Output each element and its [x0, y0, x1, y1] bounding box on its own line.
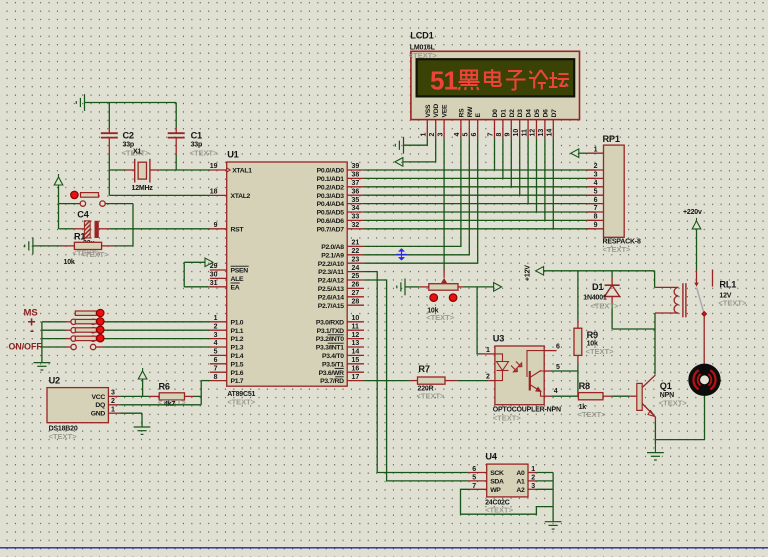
wire LCD D5 to P0.5: [536, 138, 538, 212]
svg-text:14: 14: [352, 349, 360, 356]
diode D1 1N4001: [583, 271, 619, 329]
ground (crystal top rail): [76, 94, 84, 111]
wire relay pole to motor: [703, 317, 705, 364]
svg-text:6: 6: [214, 357, 218, 364]
wire LCD D7 to P0.7: [552, 138, 554, 228]
svg-text:6: 6: [556, 344, 560, 351]
svg-text:<TEXT>: <TEXT>: [493, 414, 522, 423]
wire LCD D2 to P0.2: [510, 138, 512, 186]
svg-text:X1: X1: [133, 149, 141, 156]
svg-text:RS: RS: [458, 108, 465, 118]
svg-text:P1.2: P1.2: [231, 336, 244, 343]
svg-text:<TEXT>: <TEXT>: [586, 347, 615, 356]
svg-text:24: 24: [352, 265, 360, 272]
svg-text:P3.0/RXD: P3.0/RXD: [316, 319, 344, 326]
capacitor C2 33p: [101, 131, 150, 158]
svg-text:U1: U1: [227, 150, 238, 160]
capacitor C4 22u: [59, 210, 111, 248]
svg-text:OPTOCOUPLER-NPN: OPTOCOUPLER-NPN: [493, 407, 561, 414]
wire P0.1 bus row: [364, 177, 595, 179]
svg-text:VEE: VEE: [442, 104, 449, 117]
svg-text:RP1: RP1: [603, 134, 620, 144]
svg-text:<TEXT>: <TEXT>: [190, 149, 219, 158]
svg-text:XTAL2: XTAL2: [231, 193, 251, 200]
svg-text:<TEXT>: <TEXT>: [718, 299, 747, 308]
svg-text:D6: D6: [542, 109, 549, 118]
svg-text:7: 7: [214, 365, 218, 372]
svg-text:39: 39: [352, 163, 360, 170]
svg-text:12: 12: [530, 129, 537, 137]
optocoupler U3: [486, 334, 561, 423]
svg-text:P1.6: P1.6: [231, 370, 244, 377]
svg-text:C1: C1: [191, 131, 202, 141]
svg-text:P3.3/INT1: P3.3/INT1: [316, 345, 344, 352]
wire RS to P2.0: [364, 138, 461, 246]
svg-text:P0.0/AD0: P0.0/AD0: [317, 168, 345, 175]
svg-text:<TEXT>: <TEXT>: [659, 399, 688, 408]
svg-text:P2.6/A14: P2.6/A14: [318, 294, 344, 301]
wire LCD D6 to P0.6: [544, 138, 546, 220]
svg-text:33p: 33p: [123, 142, 134, 149]
svg-text:P2.2/A10: P2.2/A10: [318, 261, 344, 268]
svg-text:3: 3: [437, 133, 444, 137]
svg-text:C4: C4: [77, 210, 89, 220]
svg-text:R8: R8: [579, 381, 590, 391]
svg-text:1: 1: [486, 347, 490, 354]
svg-text:8: 8: [496, 133, 503, 137]
wire P0.7 bus row: [364, 228, 595, 230]
svg-text:29: 29: [210, 263, 218, 270]
svg-text:P0.6/AD6: P0.6/AD6: [317, 218, 345, 225]
wire U3 pin4 to R8: [544, 395, 578, 397]
svg-text:P2.7/A15: P2.7/A15: [318, 303, 344, 310]
svg-text:PSEN: PSEN: [231, 268, 249, 275]
wire pot right to power: [463, 286, 494, 288]
svg-text:D1: D1: [592, 282, 603, 292]
wire E to P2.2: [364, 138, 478, 263]
svg-text:GND: GND: [91, 411, 106, 418]
svg-text:1: 1: [111, 406, 115, 413]
power arrow (RP1 pin1): [571, 149, 579, 158]
svg-text:<TEXT>: <TEXT>: [485, 506, 514, 515]
wire P0.0 bus row: [364, 169, 595, 171]
sheet border bottom: [0, 547, 768, 549]
svg-text:DQ: DQ: [95, 402, 105, 409]
wire LCD VEE to pot wiper: [443, 138, 445, 277]
wire +12V rail: [544, 271, 655, 288]
svg-text:2: 2: [214, 323, 218, 330]
svg-text:R9: R9: [587, 330, 598, 340]
svg-text:11: 11: [521, 129, 528, 137]
svg-text:3: 3: [111, 390, 115, 397]
wire LCD D1 to P0.1: [502, 138, 504, 178]
svg-text:5: 5: [214, 349, 218, 356]
push button reset: [71, 191, 133, 246]
svg-text:17: 17: [352, 374, 360, 381]
lcd text zi: [506, 71, 526, 90]
eeprom U4 24C02C: [470, 452, 537, 515]
svg-text:P2.3/A11: P2.3/A11: [318, 269, 344, 276]
svg-text:P2.0/A8: P2.0/A8: [321, 244, 344, 251]
svg-text:A1: A1: [516, 479, 525, 486]
svg-text:10: 10: [513, 129, 520, 137]
svg-text:<TEXT>: <TEXT>: [227, 398, 256, 407]
svg-text:10: 10: [352, 315, 360, 322]
ground (U4): [545, 522, 562, 529]
wire EA loop: [184, 262, 210, 287]
wire pot net down to U3 pin1: [477, 287, 495, 354]
svg-text:P3.1/TXD: P3.1/TXD: [317, 328, 344, 335]
svg-text:P1.1: P1.1: [231, 328, 244, 335]
svg-text:R7: R7: [418, 364, 429, 374]
svg-text:+220v: +220v: [683, 209, 702, 216]
lcd screen: [417, 59, 575, 96]
wire U3 pin5 to R9: [544, 370, 578, 372]
svg-text:1: 1: [531, 466, 535, 473]
svg-text:<TEXT>: <TEXT>: [603, 245, 632, 254]
wire P0.5 bus row: [364, 211, 595, 213]
wire LCD VSS to ground: [404, 138, 428, 145]
ground (LCD VSS): [395, 137, 403, 154]
svg-text:SCK: SCK: [490, 470, 504, 477]
svg-text:P2.1/A9: P2.1/A9: [321, 252, 344, 259]
ground (pot): [397, 279, 405, 296]
capacitor C1 33p: [168, 131, 218, 158]
svg-text:27: 27: [352, 290, 360, 297]
lcd text lun: [529, 70, 548, 90]
svg-text:9: 9: [594, 222, 598, 229]
crystal X1 12MHz: [109, 149, 210, 193]
svg-text:P0.1/AD1: P0.1/AD1: [317, 176, 345, 183]
svg-text:9: 9: [214, 222, 218, 229]
svg-text:21: 21: [352, 240, 360, 247]
svg-text:R6: R6: [159, 382, 170, 392]
svg-text:D4: D4: [526, 109, 533, 118]
svg-text:12: 12: [352, 332, 360, 339]
wire LCD D4 to P0.4: [527, 138, 529, 203]
svg-text:33: 33: [352, 214, 360, 221]
svg-text:P0.3/AD3: P0.3/AD3: [317, 193, 345, 200]
svg-text:8: 8: [594, 214, 598, 221]
relay RL1 12V: [655, 270, 747, 318]
svg-text:26: 26: [352, 282, 360, 289]
push button row 3 (P1.2): [42, 326, 210, 341]
power arrow (+12V): [536, 267, 544, 276]
svg-text:6: 6: [471, 133, 478, 137]
svg-text:XTAL1: XTAL1: [232, 168, 252, 175]
svg-text:19: 19: [210, 163, 218, 170]
svg-text:ON/OFF: ON/OFF: [9, 342, 43, 352]
svg-text:1: 1: [214, 315, 218, 322]
svg-text:10k: 10k: [64, 259, 75, 266]
svg-text:C2: C2: [123, 131, 134, 141]
svg-text:LCD1: LCD1: [410, 31, 433, 41]
svg-text:<TEXT>: <TEXT>: [590, 302, 619, 311]
svg-text:EA: EA: [231, 284, 240, 291]
svg-text:12MHz: 12MHz: [132, 185, 154, 192]
svg-text:25: 25: [352, 273, 360, 280]
resistor R8 1k: [578, 381, 631, 419]
svg-text:U2: U2: [49, 376, 60, 386]
power arrow (U2 VCC): [138, 368, 147, 379]
transistor Q1 NPN: [630, 375, 687, 422]
svg-text:1: 1: [421, 133, 428, 137]
wire top rail to C2/C1: [85, 103, 177, 134]
svg-text:SDA: SDA: [490, 479, 504, 486]
wire +220V to relay contact: [694, 229, 698, 287]
power arrow (+220V): [692, 218, 701, 229]
svg-text:P3.6/WR: P3.6/WR: [319, 370, 344, 377]
svg-text:D0: D0: [492, 109, 499, 118]
origin marker (blue cross): [396, 249, 407, 260]
svg-text:14: 14: [547, 129, 554, 137]
svg-text:D7: D7: [551, 109, 558, 118]
svg-text:2: 2: [531, 474, 535, 481]
lcd text hei: [459, 71, 480, 91]
power arrow (pot): [494, 283, 502, 292]
svg-text:2: 2: [594, 163, 598, 170]
power arrow (reset): [54, 174, 63, 185]
svg-text:Q1: Q1: [660, 381, 672, 391]
svg-text:1N4001: 1N4001: [583, 294, 607, 301]
resistor R9 10k: [574, 271, 614, 371]
svg-text:3: 3: [531, 483, 535, 490]
wire LCD D3 to P0.3: [519, 138, 521, 195]
svg-text:51: 51: [430, 66, 457, 96]
wire D1 bottom / coil bottom / collector node: [612, 313, 655, 374]
lcd text 51: [430, 66, 457, 96]
svg-text:34: 34: [352, 205, 360, 212]
svg-text:6: 6: [594, 197, 598, 204]
svg-text:4: 4: [214, 340, 218, 347]
svg-text:U3: U3: [493, 334, 504, 344]
svg-text:4: 4: [554, 388, 558, 395]
svg-text:A2: A2: [516, 487, 525, 494]
wire U2 GND: [120, 413, 142, 427]
wire U4 WP loop: [461, 489, 554, 514]
svg-text:<TEXT>: <TEXT>: [578, 410, 607, 419]
svg-text:RW: RW: [467, 106, 474, 117]
svg-text:9: 9: [505, 133, 512, 137]
wire P0.2 bus row: [364, 186, 595, 188]
svg-text:P0.5/AD5: P0.5/AD5: [317, 210, 345, 217]
svg-text:3: 3: [214, 332, 218, 339]
svg-text:11: 11: [352, 323, 360, 330]
svg-text:P1.3: P1.3: [231, 345, 244, 352]
wire P2.4 to U4 SDA: [364, 280, 487, 481]
lcd text dian: [485, 69, 501, 86]
svg-text:D3: D3: [517, 109, 524, 118]
svg-text:P1.5: P1.5: [231, 361, 244, 368]
push button row 4 (P1.3): [42, 335, 210, 350]
svg-text:13: 13: [538, 129, 545, 137]
svg-text:P3.7/RD: P3.7/RD: [320, 378, 344, 385]
svg-text:37: 37: [352, 180, 360, 187]
wire power to reset button / C4: [59, 185, 80, 229]
lcd pins: [421, 104, 558, 139]
wire emitter to ground rail: [655, 422, 705, 445]
wire P0.4 bus row: [364, 203, 595, 205]
svg-text:5: 5: [472, 474, 476, 481]
svg-text:P2.4/A12: P2.4/A12: [318, 278, 344, 285]
svg-text:P3.4/T0: P3.4/T0: [322, 353, 344, 360]
mcu U1 AT89C51: [210, 150, 364, 407]
svg-text:D5: D5: [534, 109, 541, 118]
svg-text:P1.4: P1.4: [231, 353, 244, 360]
svg-text:31: 31: [210, 280, 218, 287]
svg-text:16: 16: [352, 365, 360, 372]
svg-text:5: 5: [463, 133, 470, 137]
resistor R7 220R: [364, 364, 457, 401]
wire R7 to U3 pin2: [457, 380, 495, 382]
svg-text:36: 36: [352, 188, 360, 195]
svg-text:ALE: ALE: [231, 276, 244, 283]
svg-text:33p: 33p: [191, 142, 202, 149]
svg-text:23: 23: [352, 256, 360, 263]
wire button common vertical: [41, 322, 43, 363]
wire U4 right pins to ground: [536, 473, 553, 522]
svg-text:WP: WP: [490, 487, 501, 494]
svg-text:8: 8: [214, 374, 218, 381]
svg-text:2: 2: [486, 374, 490, 381]
wire motor bottom: [704, 396, 706, 440]
svg-text:18: 18: [210, 189, 218, 196]
svg-text:P3.5/T1: P3.5/T1: [322, 361, 344, 368]
svg-text:35: 35: [352, 197, 360, 204]
svg-text:P1.7: P1.7: [231, 378, 244, 385]
svg-text:15: 15: [352, 357, 360, 364]
svg-text:5: 5: [594, 188, 598, 195]
svg-text:<TEXT>: <TEXT>: [426, 313, 455, 322]
svg-text:32: 32: [352, 222, 360, 229]
svg-text:3: 3: [594, 172, 598, 179]
svg-text:RST: RST: [231, 226, 245, 233]
svg-text:P1.0: P1.0: [231, 319, 244, 326]
svg-text:VCC: VCC: [92, 394, 106, 401]
wire VCC net U2: [120, 379, 150, 396]
wire P2.3 to U4 SCK: [364, 272, 487, 473]
svg-text:28: 28: [352, 298, 360, 305]
svg-text:4: 4: [454, 133, 461, 137]
svg-text:22: 22: [352, 248, 360, 255]
motor: [688, 364, 720, 396]
wire RP1 pin1: [579, 152, 587, 154]
svg-text:-: -: [30, 324, 34, 338]
lcd LCD1 LM016L: [409, 31, 580, 120]
ground (U2): [134, 427, 151, 434]
svg-text:RL1: RL1: [719, 280, 736, 290]
svg-text:5: 5: [556, 364, 560, 371]
svg-text:13: 13: [352, 340, 360, 347]
wire C1 to XTAL1 net: [175, 155, 177, 171]
wire P0.6 bus row: [364, 219, 595, 221]
svg-text:1: 1: [594, 146, 598, 153]
svg-text:VDD: VDD: [433, 104, 440, 118]
wire C2 branch to XTAL2: [109, 155, 210, 196]
svg-text:A0: A0: [516, 470, 525, 477]
potentiometer 10k: [405, 278, 463, 322]
wire P0.3 bus row: [364, 194, 595, 196]
resistor pack RP1 RESPACK-8: [587, 134, 641, 254]
svg-text:4: 4: [594, 180, 598, 187]
svg-text:30: 30: [210, 272, 218, 279]
svg-text:7: 7: [488, 133, 495, 137]
wire LCD VDD to power: [404, 138, 436, 162]
temperature sensor U2 DS18B20: [47, 376, 120, 442]
svg-text:VSS: VSS: [425, 104, 432, 117]
lcd text tan: [549, 72, 569, 87]
power arrow (LCD VDD): [395, 158, 403, 167]
svg-text:P3.2/INT0: P3.2/INT0: [316, 336, 344, 343]
wire RW to P2.1: [364, 138, 469, 254]
svg-text:7: 7: [594, 205, 598, 212]
svg-text:<TEXT>: <TEXT>: [81, 250, 110, 259]
svg-text:P0.7/AD7: P0.7/AD7: [317, 226, 345, 233]
svg-text:P2.5/A13: P2.5/A13: [318, 286, 344, 293]
svg-text:D2: D2: [509, 109, 516, 118]
svg-text:38: 38: [352, 172, 360, 179]
svg-text:+12V: +12V: [525, 265, 532, 281]
wire R9 bottom to R8 left: [577, 371, 579, 396]
push button row 1 (P1.0): [42, 309, 210, 324]
ground (R1): [25, 238, 33, 255]
resistor R1 10k: [33, 232, 133, 267]
wire RST net: [110, 228, 210, 230]
ground (buttons): [34, 363, 51, 370]
svg-text:P0.2/AD2: P0.2/AD2: [317, 184, 345, 191]
wire U3 pin6 stub: [544, 350, 556, 352]
power arrow (EA): [205, 258, 213, 267]
svg-text:P0.4/AD4: P0.4/AD4: [317, 201, 345, 208]
push button row 2 (P1.1): [42, 318, 210, 333]
svg-text:6: 6: [472, 466, 476, 473]
wire LCD D0 to P0.0: [494, 138, 496, 170]
svg-text:R1: R1: [74, 232, 85, 242]
svg-text:2: 2: [111, 398, 115, 405]
svg-text:<TEXT>: <TEXT>: [417, 392, 446, 401]
svg-text:<TEXT>: <TEXT>: [49, 432, 78, 441]
resistor R6 4k7 pull-up: [150, 382, 202, 409]
svg-text:D1: D1: [500, 109, 507, 118]
ground (Q1/motor): [647, 453, 664, 460]
wire DQ net to P1.7: [120, 381, 210, 405]
svg-text:2: 2: [429, 133, 436, 137]
svg-text:U4: U4: [485, 452, 497, 462]
